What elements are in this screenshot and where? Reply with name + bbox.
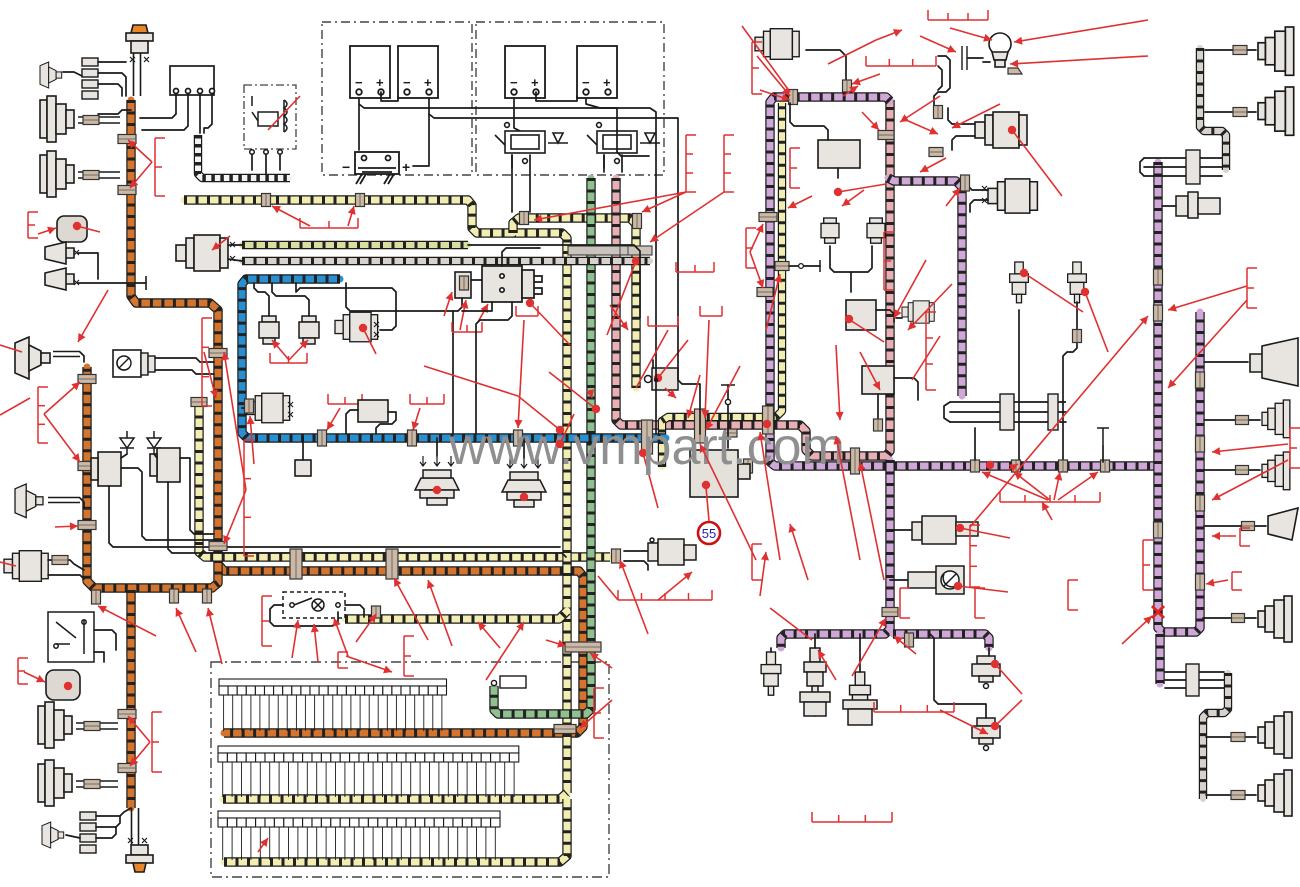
- diode D1: [120, 431, 134, 454]
- lamp headlight left 1: [40, 96, 74, 142]
- connector tr lamp2 plug: [1233, 108, 1247, 117]
- wire ps right lead2: [890, 579, 908, 581]
- connector pB tap 3: [1196, 495, 1205, 511]
- red leader a79: [580, 700, 612, 728]
- battery cell B2b: [577, 46, 617, 98]
- red line rl3: [424, 366, 518, 396]
- wire feed wire 1: [655, 152, 657, 434]
- component ignition coil: [455, 272, 471, 298]
- wire glow2 tail: [814, 692, 816, 716]
- tr group connector: [1186, 150, 1200, 184]
- red leader a1: [128, 140, 152, 162]
- red ruler rb9: [262, 596, 272, 646]
- red dot lambda1 dot: [1008, 126, 1016, 134]
- red leader a4: [44, 382, 80, 414]
- red ruler rb14: [594, 688, 604, 738]
- wire ps1 link: [988, 648, 990, 656]
- connector barrel plug: [52, 556, 68, 565]
- sensor sensor lambda 1: [975, 112, 1027, 148]
- wire top lamp leads: [134, 53, 141, 96]
- wire PR lead2: [790, 103, 828, 140]
- lamp dome lamp 1: [415, 456, 459, 505]
- wire stack leads: [98, 61, 126, 63]
- connector left bottom tap 1: [92, 590, 101, 604]
- wire sensor rt lead: [1162, 205, 1176, 207]
- svg-text:+: +: [424, 75, 432, 90]
- glow2 base: [800, 692, 830, 716]
- red line rl1: [607, 261, 636, 335]
- red leader a68: [356, 614, 376, 642]
- wire headlight1 leads: [78, 117, 120, 123]
- red ruler flasher bracket: [28, 212, 38, 238]
- horn 1: [45, 242, 74, 264]
- svg-text:www.vmpart.com: www.vmpart.com: [448, 418, 845, 476]
- red line rl6: [850, 320, 884, 342]
- red ruler r6b: [452, 322, 482, 332]
- wire stack leads3: [98, 84, 122, 96]
- connector pink mid tap: [878, 131, 894, 140]
- connector purple pair tap: [759, 213, 777, 222]
- node feed: [654, 378, 658, 382]
- red leader a76: [176, 608, 196, 652]
- red leader a77: [206, 608, 222, 664]
- connector yellow end plug: [612, 549, 621, 563]
- red leader a53: [760, 552, 769, 596]
- horn tick: [145, 276, 147, 290]
- wire bl stack out2: [96, 816, 120, 827]
- diagnostic connector: [491, 676, 526, 688]
- wire res link: [968, 57, 983, 59]
- red line rl5: [834, 184, 886, 196]
- red leader a50: [1054, 472, 1062, 500]
- red ruler r21: [404, 636, 414, 676]
- svg-text:−: −: [342, 159, 350, 175]
- wire R5 drop: [877, 394, 879, 420]
- solenoid valve B: [299, 316, 319, 344]
- red ruler rb1: [155, 138, 165, 196]
- red line rl12: [556, 414, 574, 448]
- red line rl7: [912, 336, 940, 380]
- connector blue tap 1: [318, 430, 327, 446]
- sensor sensor PL1: [755, 29, 799, 60]
- sensor right top: [1176, 192, 1220, 218]
- red leader a35: [843, 86, 858, 96]
- strain marks wiper: [230, 242, 235, 261]
- red leader a5: [44, 414, 80, 462]
- lamp tail right 2: [1258, 87, 1294, 135]
- wire relay drop c: [279, 154, 281, 170]
- red line rl4: [268, 96, 300, 130]
- connector rl3 plug: [1236, 466, 1249, 475]
- wire R3 side: [876, 310, 894, 322]
- red leader a47: [858, 462, 884, 580]
- connector inner wire tap: [775, 262, 789, 271]
- wire PL1 lead: [806, 50, 846, 82]
- wire glow1 stem: [770, 648, 772, 652]
- red leader a58: [1212, 460, 1288, 500]
- red leader a54: [619, 560, 648, 634]
- wire yellow upper branch: [513, 218, 636, 388]
- wire tr group join: [1140, 158, 1144, 176]
- svg-text:+: +: [402, 159, 410, 175]
- wire relay2 drop b: [621, 155, 623, 172]
- switch small detail: [117, 353, 155, 375]
- wire yellow sensor leads: [624, 550, 648, 552]
- capacitor C1: [91, 452, 121, 486]
- red cross marker: [1152, 606, 1164, 618]
- red leader rv1 a: [642, 192, 686, 212]
- wire module blue lead2: [346, 410, 358, 434]
- red leader a21: [1014, 20, 1148, 45]
- red leader a39: [686, 375, 700, 418]
- red line lambda1 tail: [1012, 130, 1062, 196]
- connector curve tap 2: [929, 148, 943, 157]
- sensor injector M2: [1068, 262, 1087, 303]
- wire feed cross: [617, 130, 649, 156]
- strain marks bottom lamp: [128, 838, 147, 843]
- lamp right lamp 2: [1262, 400, 1290, 438]
- wire horn1 lead: [78, 253, 98, 279]
- red line rl9: [636, 330, 668, 388]
- wire reservoir curve: [934, 56, 950, 118]
- wire feed wire 2: [678, 152, 700, 434]
- red leader a74: [130, 742, 150, 766]
- connector bundle wide tap: [565, 642, 601, 652]
- red leader a25: [906, 120, 938, 135]
- component sensor R5: [862, 366, 894, 394]
- red ruler rv2: [724, 135, 734, 192]
- sensor cyl sensor blue: [247, 393, 290, 423]
- wire br group c: [1165, 687, 1224, 689]
- label 55 circle: [698, 522, 720, 544]
- red dot dome1 dot: [433, 486, 441, 494]
- connector loop tap 1: [209, 349, 227, 358]
- red leader a71: [486, 622, 524, 680]
- solenoid valve R2: [867, 218, 885, 243]
- wire switch small lead: [155, 358, 214, 362]
- red ruler module2 bracket: [18, 658, 28, 684]
- connector purple bottom tap: [905, 633, 914, 647]
- wire battery neg down: [358, 98, 360, 150]
- wire battery bus right: [359, 104, 656, 152]
- wire ps right lead: [890, 529, 912, 531]
- red ruler rb2b: [202, 318, 212, 406]
- red ruler rv5: [1143, 540, 1153, 590]
- wire br group a: [1165, 671, 1224, 673]
- wire cluster wires c: [109, 486, 560, 547]
- connector hll1 plug: [84, 722, 100, 731]
- wire junction wires d: [204, 94, 212, 133]
- wire antenna ecu: [727, 385, 729, 448]
- wire reservoir curve2: [938, 66, 942, 90]
- wire relay1 drop b: [529, 155, 531, 212]
- strain marks cyl blue: [288, 402, 293, 417]
- lamp cone left low: [15, 484, 43, 518]
- lamp tail right low 1: [1258, 712, 1292, 758]
- red dot module2 dot: [64, 682, 72, 690]
- connector yellow end tap: [372, 606, 381, 618]
- wire yellow sensor leads2: [624, 561, 648, 570]
- wire trio drop: [974, 428, 976, 460]
- connector pB tap 4: [1196, 574, 1205, 590]
- dashed enclosure battery box 2: [476, 22, 664, 175]
- red leader a33: [908, 284, 952, 330]
- red leader a67: [333, 618, 348, 656]
- red leader a81: [212, 236, 230, 250]
- svg-text:−: −: [403, 75, 411, 90]
- wire tr lamp1 lead: [1205, 49, 1256, 51]
- wedge lamp right: [1268, 508, 1298, 540]
- red leader a10: [289, 340, 308, 360]
- lamp bottom plug: [126, 845, 153, 872]
- red leader a85: [876, 29, 902, 40]
- connector wedge plug: [1242, 522, 1255, 531]
- wire antenna drop: [1102, 446, 1104, 462]
- red dot pink junction dot: [763, 420, 771, 428]
- wire hl1 to harness: [98, 110, 131, 114]
- red leader a36: [757, 56, 790, 96]
- wire rl2 lead: [1204, 419, 1260, 421]
- component module blue: [358, 400, 388, 422]
- red ruler r15: [900, 588, 910, 618]
- red leader east corner arrow: [946, 188, 960, 206]
- wire yellow top horizontal: [184, 200, 567, 793]
- connector center tall tap 2: [695, 409, 706, 443]
- red line left edge 1: [0, 398, 30, 415]
- red leader a55: [1168, 286, 1247, 312]
- wire R4 link: [896, 317, 902, 319]
- wire orange loop bottom left: [87, 367, 218, 588]
- lamp dome lamp 2: [502, 458, 546, 507]
- wire battery link 1: [381, 92, 398, 101]
- wire tr group b: [1144, 166, 1222, 168]
- connector rl2 plug: [1236, 416, 1249, 425]
- red leader a17: [586, 389, 594, 398]
- wire barrel leads: [48, 560, 84, 570]
- antenna ecu top: [721, 384, 735, 386]
- red ruler r20b: [812, 812, 892, 822]
- connector pink tap R5: [874, 419, 883, 431]
- strain marks sensor C: [374, 322, 379, 337]
- red ruler rb8: [1232, 572, 1242, 590]
- sensor sensor C: [335, 312, 378, 342]
- wire cone mid lead: [53, 352, 80, 357]
- sensor mid 1: [912, 516, 978, 544]
- red ruler r11: [746, 228, 756, 268]
- red line sensor mid1 tail: [960, 528, 1010, 538]
- dashed enclosure fuse box: [211, 662, 609, 877]
- fuse comb row2: [218, 746, 519, 797]
- red leader a37: [665, 388, 676, 398]
- red line ps2 tail: [995, 700, 1022, 726]
- cone right mid: [1250, 338, 1298, 386]
- red leader flasher arrow: [38, 227, 56, 235]
- wire cone low join: [80, 498, 84, 508]
- red leader a45: [789, 524, 808, 580]
- red ruler rb13: [338, 652, 348, 668]
- wire gray striped wire: [242, 257, 650, 265]
- red leader a6: [221, 352, 246, 490]
- red leader a48: [982, 471, 1048, 500]
- connector headlight2 plug: [83, 171, 99, 180]
- connector stack top left: [82, 58, 98, 99]
- wire yellow mid horizontal: [345, 611, 567, 619]
- wire barrel leads2: [48, 575, 84, 579]
- red ruler rb3: [752, 42, 762, 94]
- wire orange main upper vertical: [131, 100, 218, 560]
- svg-text:+: +: [376, 75, 384, 90]
- connector purple tap M1: [1012, 460, 1021, 472]
- dashed enclosure relay box: [244, 85, 296, 149]
- red leader a61: [1206, 579, 1228, 587]
- red leader a78: [346, 656, 392, 673]
- red leader bundle arrow R: [590, 653, 612, 668]
- wire trailer wires c: [950, 421, 1066, 423]
- wire cluster wires d: [168, 482, 566, 557]
- connector yellow top tap 2: [356, 194, 365, 207]
- wire trl2 lead: [1206, 794, 1256, 796]
- wire dist down: [462, 302, 492, 311]
- relay R1: [250, 96, 287, 154]
- red dot sensorC dot: [359, 324, 367, 332]
- wire yellow fuse row3: [224, 799, 567, 862]
- wire injector M1 drop: [1018, 310, 1020, 462]
- lamp cone bottom left: [42, 822, 64, 848]
- connector blue tap 3: [514, 430, 523, 446]
- connector orange tap 2: [118, 186, 136, 195]
- red leader a27: [788, 196, 812, 208]
- wire wiper stub b: [228, 259, 242, 261]
- wire relay drop a: [251, 154, 253, 170]
- wire cyl blue lead: [242, 407, 247, 409]
- lamp headlight left 2: [40, 151, 74, 197]
- wire relay drop b: [265, 154, 267, 174]
- red ruler rT2: [410, 394, 444, 404]
- wire purple right vertical A: [1158, 162, 1200, 632]
- red leader a18: [272, 206, 310, 226]
- red line ecu to 55: [706, 487, 709, 521]
- wire glow3 stem: [859, 634, 861, 672]
- svg-text:+: +: [531, 75, 539, 90]
- wire lambda1 leads: [948, 108, 975, 124]
- lamp right lamp 3: [1262, 452, 1290, 490]
- wire orange long horizontal: [218, 564, 583, 733]
- wire valve R wires: [830, 246, 872, 272]
- red ruler r9: [866, 56, 936, 66]
- horn 2: [45, 268, 74, 290]
- lamp right lamp bottom U: [1258, 596, 1292, 642]
- inner stub node: [799, 264, 804, 269]
- connector pA tap 1: [1154, 269, 1163, 285]
- red ruler r10: [790, 148, 800, 188]
- red leader a75: [98, 606, 156, 636]
- red ruler rv3: [926, 312, 936, 390]
- red dot injector M1 dot: [1020, 269, 1028, 277]
- wire hatched bundle: [198, 135, 290, 178]
- wire stack leads2: [98, 73, 126, 96]
- wire switch small lead2: [155, 370, 214, 374]
- red line rotary tail: [958, 586, 1008, 592]
- wire gray striped top right: [1200, 48, 1226, 170]
- red leader a73: [128, 716, 150, 742]
- red dot green dot: [592, 405, 600, 413]
- wire lambda1 leads2: [952, 136, 975, 150]
- ignition distributor: [482, 266, 542, 302]
- red dot sensor mid1 dot: [956, 524, 964, 532]
- wire tr lamp2 lead: [1205, 111, 1256, 113]
- antenna ecu node: [725, 399, 730, 404]
- red dot dist dot: [526, 299, 534, 307]
- red line rl2: [518, 396, 564, 434]
- red leader a60: [1122, 616, 1152, 644]
- red leader a26: [920, 158, 946, 172]
- red leader a49: [1014, 472, 1050, 500]
- relay K2: [587, 123, 660, 164]
- connector center tap 3: [763, 406, 774, 434]
- red leader a29: [900, 96, 940, 122]
- fuse comb row3: [218, 811, 500, 860]
- wire purple bottom right stub: [893, 634, 989, 648]
- wire headlight2 leads: [78, 172, 120, 178]
- red dot purple line dot: [986, 461, 994, 469]
- wire purple loop: [770, 97, 1154, 466]
- lamp cone mid left: [15, 337, 50, 379]
- svg-text:+: +: [603, 75, 611, 90]
- wire relay K2 pins: [603, 155, 605, 168]
- red leader r6b b: [478, 304, 488, 322]
- wire rl3 lead: [1204, 469, 1260, 471]
- lamp top plug: [126, 25, 153, 53]
- sensor rotary: [908, 566, 964, 594]
- connector curve tap 1: [934, 106, 943, 119]
- pressure sensor PS2: [972, 718, 1000, 751]
- module relay2: [46, 670, 80, 700]
- wire horn2 lead: [78, 282, 146, 284]
- wire dist to blue: [476, 302, 512, 434]
- br group connector: [1186, 664, 1199, 696]
- red dot ecu dot: [702, 481, 710, 489]
- inner stub end: [819, 260, 821, 272]
- component relay PR: [818, 140, 860, 168]
- connector orange tap low2: [118, 764, 136, 773]
- grommet marks: [962, 46, 967, 70]
- red leader a84: [1008, 464, 1018, 472]
- connector purple top tap: [789, 90, 798, 105]
- wire yellow fuse row2: [223, 793, 567, 799]
- red leader a12: [514, 320, 524, 428]
- pump sensor center: [645, 368, 679, 390]
- red line sensorC tail: [363, 328, 376, 354]
- red ruler r8: [928, 10, 988, 20]
- svg-text:−: −: [510, 75, 518, 90]
- connector blue tap 2: [408, 430, 417, 446]
- wire cone mid join: [80, 352, 84, 362]
- connector yellow branch tap: [633, 214, 642, 229]
- wire coil top: [502, 248, 540, 266]
- red dot ps1 dot: [991, 660, 999, 668]
- red leader a44: [757, 432, 780, 560]
- sensor glow plug 1: [761, 652, 781, 695]
- wire wiper stub a: [228, 244, 242, 246]
- wire relay1 drop a: [511, 155, 513, 212]
- wire gray striped bottom right: [1203, 673, 1228, 799]
- red leader r6b a: [460, 300, 468, 330]
- battery symbol: [342, 152, 410, 184]
- fluid reservoir: [989, 33, 1011, 67]
- red leader r6b c: [444, 292, 453, 316]
- red ruler r3: [270, 353, 307, 363]
- red leader a24: [852, 74, 880, 85]
